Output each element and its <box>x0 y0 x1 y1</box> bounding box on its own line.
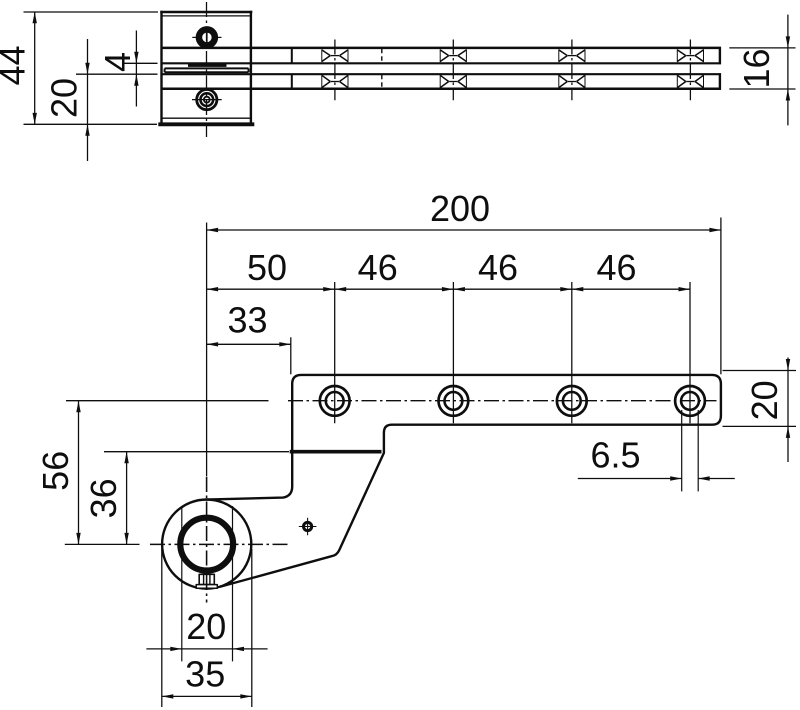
svg-text:20: 20 <box>43 78 84 118</box>
svg-text:46: 46 <box>358 247 398 288</box>
svg-text:4: 4 <box>97 52 138 72</box>
svg-text:200: 200 <box>430 188 490 229</box>
svg-text:50: 50 <box>247 247 287 288</box>
svg-text:56: 56 <box>35 451 76 491</box>
svg-text:46: 46 <box>596 247 636 288</box>
svg-text:33: 33 <box>227 300 267 341</box>
svg-text:44: 44 <box>0 45 33 85</box>
svg-text:35: 35 <box>185 653 225 694</box>
svg-text:20: 20 <box>186 606 226 647</box>
svg-text:6.5: 6.5 <box>590 435 640 476</box>
svg-text:46: 46 <box>478 247 518 288</box>
svg-text:36: 36 <box>83 478 124 518</box>
svg-text:20: 20 <box>744 380 785 420</box>
svg-text:16: 16 <box>736 48 777 88</box>
